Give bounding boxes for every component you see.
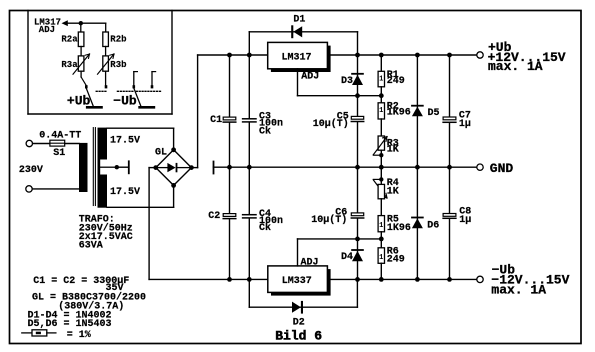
svg-text:1K96: 1K96 — [387, 223, 411, 234]
svg-text:ADJ: ADJ — [39, 25, 55, 35]
svg-text:1: 1 — [379, 254, 383, 262]
svg-text:max. 1A: max. 1A — [491, 283, 546, 298]
svg-text:D3: D3 — [341, 76, 353, 87]
svg-text:D6: D6 — [427, 221, 439, 232]
svg-text:R3a: R3a — [61, 60, 78, 70]
svg-text:10µ(T): 10µ(T) — [313, 118, 349, 130]
svg-text:LM337: LM337 — [282, 276, 312, 287]
svg-text:1µ: 1µ — [459, 215, 471, 226]
svg-text:max. 1A: max. 1A — [488, 59, 543, 74]
svg-text:D1: D1 — [293, 15, 305, 26]
svg-text:10µ(T): 10µ(T) — [311, 214, 347, 226]
svg-text:ADJ: ADJ — [301, 72, 319, 83]
svg-text:+Ub: +Ub — [67, 93, 91, 108]
svg-text:1K: 1K — [387, 145, 399, 156]
svg-text:ADJ: ADJ — [301, 257, 319, 268]
svg-text:63VA: 63VA — [79, 241, 103, 252]
svg-text:1K96: 1K96 — [387, 107, 411, 118]
svg-text:Bild 6: Bild 6 — [275, 329, 322, 344]
svg-text:249: 249 — [387, 76, 405, 87]
svg-text:Ck: Ck — [259, 222, 271, 234]
svg-text:D4: D4 — [341, 252, 353, 263]
svg-text:249: 249 — [387, 255, 405, 266]
svg-text:230V: 230V — [19, 165, 43, 176]
svg-text:17.5V: 17.5V — [110, 135, 140, 146]
svg-text:1: 1 — [379, 76, 383, 84]
svg-text:D5: D5 — [428, 108, 440, 119]
svg-text:R2b: R2b — [110, 34, 126, 44]
svg-text:R2a: R2a — [61, 34, 78, 44]
svg-text:D2: D2 — [293, 317, 305, 328]
svg-text:GL: GL — [155, 147, 167, 158]
svg-text:C2: C2 — [208, 211, 220, 222]
svg-text:1: 1 — [379, 107, 383, 115]
svg-text:D5,D6 = 1N5403: D5,D6 = 1N5403 — [28, 319, 112, 330]
svg-text:0.4A-TT: 0.4A-TT — [39, 131, 81, 142]
svg-text:C1: C1 — [210, 115, 222, 126]
svg-text:R3b: R3b — [110, 60, 126, 70]
svg-text:S1: S1 — [53, 148, 65, 159]
svg-text:Ck: Ck — [259, 126, 271, 138]
svg-text:17.5V: 17.5V — [110, 187, 140, 198]
svg-text:1µ: 1µ — [459, 119, 471, 130]
svg-text:−Ub: −Ub — [113, 93, 137, 108]
svg-text:LM317: LM317 — [282, 53, 312, 64]
svg-text:GND: GND — [490, 161, 514, 176]
svg-text:1: 1 — [379, 222, 383, 230]
svg-text:1K: 1K — [387, 186, 399, 197]
svg-text:= 1%: = 1% — [67, 330, 91, 341]
